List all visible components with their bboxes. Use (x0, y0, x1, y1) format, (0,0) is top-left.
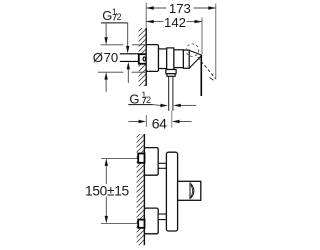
svg-text:70: 70 (104, 50, 119, 65)
svg-text:150±15: 150±15 (85, 183, 130, 198)
svg-text:2: 2 (146, 95, 151, 105)
svg-text:Ø: Ø (93, 50, 103, 65)
svg-text:142: 142 (164, 15, 186, 30)
svg-text:64: 64 (152, 115, 167, 131)
svg-text:G: G (102, 8, 112, 23)
svg-text:2: 2 (117, 12, 122, 22)
